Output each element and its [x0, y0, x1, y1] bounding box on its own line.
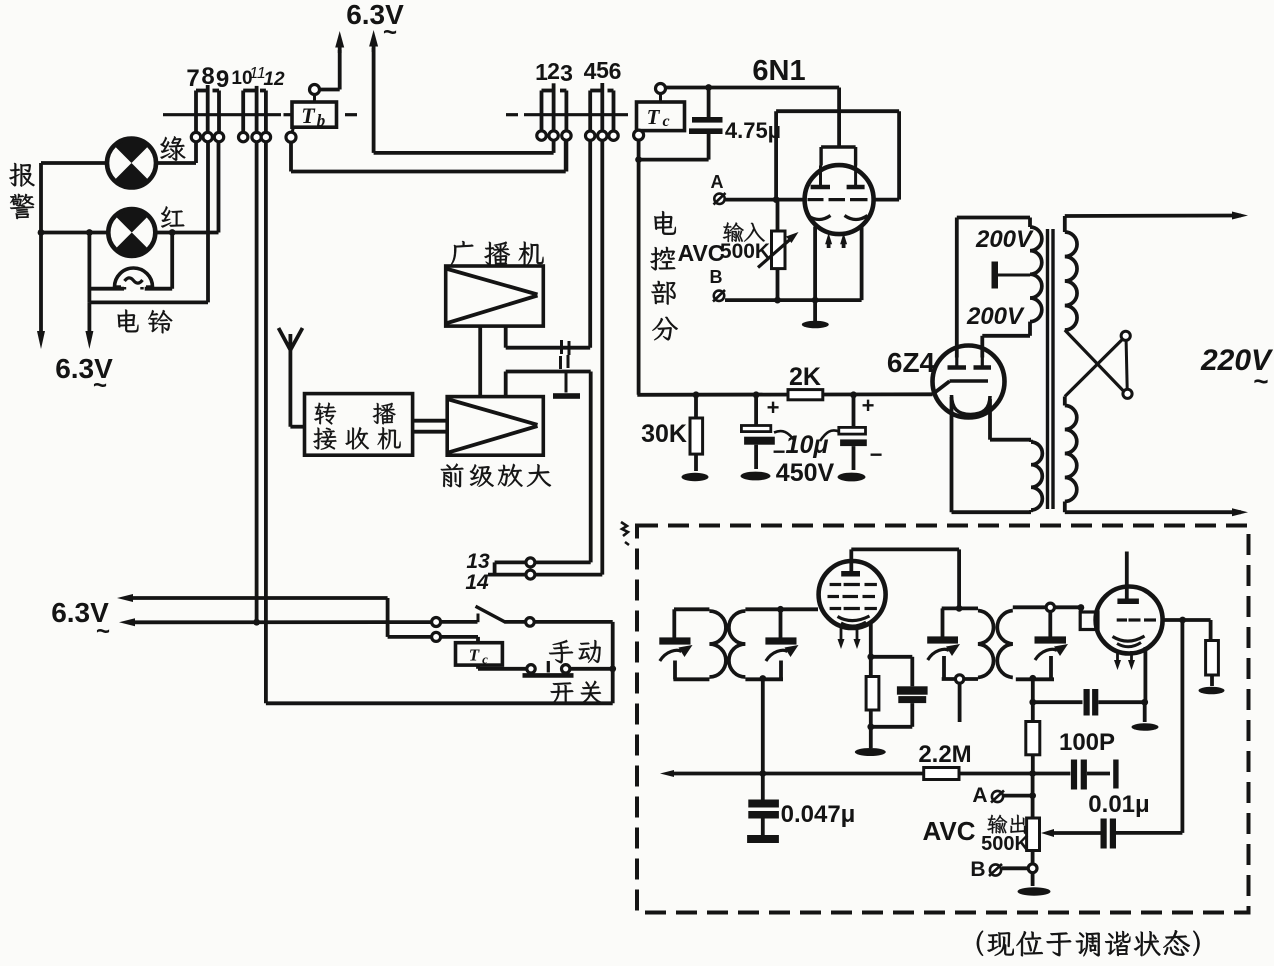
block 转播接收机 (relay receiver) box [305, 394, 413, 456]
svg-text:+: + [767, 395, 780, 420]
tube V2 cathode [1113, 636, 1145, 641]
cathode bypass capacitor V1 [871, 655, 913, 659]
bracket terminals 4-5 [590, 89, 602, 93]
wire terminal 11 down to 6.3V feed [255, 142, 259, 622]
block preamp box [447, 397, 543, 456]
label 输入 500K (input) [723, 222, 744, 242]
terminal 10 lead [241, 91, 245, 133]
tuned circuit 4 frame [1013, 605, 1046, 609]
wire 6Z4 filament right to heater winding [988, 399, 992, 440]
svg-text:450V: 450V [776, 459, 835, 487]
terminal 2 lead [552, 83, 556, 131]
tube V1 plate wire to IF transformer [851, 548, 959, 552]
relay coil Tc box upper (Jc) [637, 102, 685, 131]
terminal 1 circle [537, 131, 546, 140]
ground cathode V2 [1143, 702, 1147, 722]
tube 6N1 cathode leads [813, 227, 817, 301]
wire grid mixer tube [784, 607, 819, 611]
terminal 12 lead with hook [264, 91, 268, 133]
antenna [288, 350, 292, 427]
svg-text:~: ~ [383, 19, 397, 46]
wire terminal 3 down [565, 140, 569, 171]
wire Tb top to 6.3V arrow [320, 88, 340, 92]
svg-text:−: − [870, 442, 883, 467]
variable capacitor C1 [659, 637, 690, 644]
tube V1 cathode lead [869, 624, 873, 657]
wire antenna to receiver [290, 425, 304, 429]
terminal circle below Tc [634, 130, 644, 140]
terminal 5 circle [598, 131, 607, 140]
resistor AVC feed [1031, 702, 1035, 721]
wire Tb bottom to terminal 3 [289, 142, 293, 171]
terminal 1 lead [540, 91, 544, 131]
tube V1 top cap [841, 571, 860, 577]
terminal circle below Tb [286, 132, 296, 142]
wire bell left branch [88, 233, 92, 303]
svg-text:7: 7 [186, 65, 199, 92]
bracket terminals 10-11 [243, 89, 256, 93]
svg-text:0.01μ: 0.01μ [1088, 791, 1149, 818]
coil L4 [997, 611, 1013, 678]
svg-text:A: A [972, 784, 987, 807]
tube V1 cathode [838, 616, 870, 621]
coil L2 [729, 611, 745, 677]
svg-text:4: 4 [584, 58, 597, 84]
wire Tc bottom junction [637, 140, 641, 160]
svg-text:~: ~ [96, 618, 110, 645]
svg-text:B: B [970, 858, 985, 881]
ground cathode V1 [869, 727, 873, 748]
svg-text:T: T [647, 105, 661, 129]
tube V2 plate and top lead [1117, 599, 1139, 605]
caption 现位于调谐状态 [977, 931, 983, 956]
ground 6N1 cathode [813, 300, 817, 321]
tuned circuit 1 frame [674, 607, 709, 611]
terminal 7 lead [194, 91, 198, 133]
svg-text:500K: 500K [720, 240, 770, 263]
terminal circle above Tb [310, 85, 320, 95]
tube 6Z4 anodes [948, 365, 967, 370]
capacitor 100P on AVC rail [1071, 760, 1077, 790]
svg-text:AVC: AVC [923, 816, 976, 846]
node switch output [609, 665, 616, 672]
tube V1 mixer envelope [819, 561, 886, 628]
svg-text:AVC: AVC [678, 240, 725, 266]
svg-text:c: c [482, 652, 488, 667]
tube 6Z4 cathode [950, 379, 989, 382]
wire 6Z4 left plate to HV top [955, 218, 959, 358]
potentiometer 500K input [776, 200, 780, 231]
label 前级放大 (pre-amplifier) [441, 463, 464, 487]
svg-text:12: 12 [263, 69, 285, 90]
terminal 9 lead with hook [217, 91, 221, 133]
svg-text:+: + [862, 393, 875, 418]
capacitor 10u 450V second [852, 395, 856, 428]
tuned circuit 3 frame [956, 605, 963, 612]
wire switch return loop [611, 622, 615, 703]
wire cathode bus B [725, 298, 862, 302]
label 电铃 (bell) [118, 310, 139, 333]
tube 6N1 cathodes [808, 216, 831, 220]
svg-text:2: 2 [547, 58, 560, 84]
terminal circle above Tc [656, 84, 666, 94]
svg-text:B: B [710, 267, 723, 287]
terminal 8 lead [206, 85, 210, 132]
terminal 3 circle [562, 131, 571, 140]
wire AVC rail right of 2.2M [959, 772, 1070, 776]
potentiometer 500K output [1027, 818, 1040, 851]
tuned circuit 2 frame [745, 607, 783, 611]
wire 6.3V upper feed [117, 594, 133, 602]
wire 6Z4 right plate to HV bottom [980, 336, 984, 358]
svg-text:13: 13 [466, 550, 490, 573]
label 绿 (green) [160, 136, 185, 160]
wire green lamp left [41, 161, 107, 165]
terminal 5 lead [600, 83, 604, 131]
tube 6N1 grid dashes [808, 198, 824, 201]
relay coil Tc box [456, 643, 503, 665]
terminal 7 circle [191, 132, 200, 141]
tube 6Z4 filament [952, 395, 991, 415]
svg-text:2K: 2K [789, 363, 821, 391]
svg-text:~: ~ [1253, 366, 1268, 396]
variable capacitor C2 [765, 637, 796, 644]
svg-text:6N1: 6N1 [752, 55, 805, 87]
voltage selector switch [1065, 330, 1123, 391]
svg-text:6Z4: 6Z4 [887, 347, 936, 378]
lead 13 wire and circle [495, 561, 526, 565]
bracket terminals 1-2 [542, 89, 554, 93]
node junction dots red lamp row [38, 229, 45, 236]
terminal 10 circle [239, 132, 248, 141]
label 广播机 (broadcast set) [451, 241, 474, 265]
svg-text:2.2M: 2.2M [918, 741, 971, 768]
transformer HV winding top lead [957, 216, 1030, 220]
block broadcast amplifier box [446, 266, 544, 326]
label 电控部分 (electric control section) [654, 211, 676, 235]
relay Tc coil circuit [432, 632, 441, 641]
svg-text:4.75μ: 4.75μ [725, 118, 781, 143]
svg-text:T: T [469, 646, 480, 665]
tube 6N1 heater arrows [827, 241, 831, 248]
tube 6N1 grid cap [837, 88, 841, 148]
tube 6Z4 envelope [933, 346, 1005, 418]
wire bell right branch [170, 233, 174, 289]
terminal 11 lead [255, 86, 259, 132]
svg-text:14: 14 [465, 571, 489, 594]
label 红 (red) [161, 206, 184, 227]
wire terminal 12 down to switch return [264, 142, 268, 704]
label 手动 (manual) [549, 640, 573, 663]
wire plate loop around tube [774, 111, 778, 199]
svg-text:200V: 200V [975, 226, 1034, 253]
capacitor 10u 450V first [754, 395, 758, 426]
label 报警 (alarm) [9, 163, 34, 187]
tube 6N1 envelope [805, 165, 874, 234]
transformer primary upper [1063, 216, 1067, 232]
load resistor V2 [1209, 620, 1213, 641]
wire AVC rail with arrow [660, 770, 674, 777]
capacitor 4.75u [707, 88, 711, 118]
grid box detector tube [1080, 612, 1098, 630]
lamp green (indicator lamp) [114, 139, 149, 163]
wire V2 output right [1163, 618, 1211, 622]
resistor 2.2M [924, 768, 959, 780]
tube V1 grids [830, 583, 842, 586]
wire left drop 6.3V with arrow [39, 163, 43, 332]
svg-text:~: ~ [93, 372, 107, 399]
wire terminal 4 down to coupling cap [588, 140, 592, 347]
wire AVC drop from tank2 [761, 679, 765, 773]
tube V2 detector envelope [1096, 587, 1163, 654]
svg-text:500K: 500K [981, 833, 1029, 855]
wire 6.3V source down to terminal 2 [372, 42, 376, 52]
wire HT rail drop [637, 160, 641, 395]
cathode resistor V1 [869, 657, 873, 677]
terminal 11 circle [252, 132, 261, 141]
wire receiver to preamp double line [413, 419, 448, 423]
label 开关 (switch) [551, 682, 574, 704]
dashed crossing line terminal strip [163, 113, 281, 116]
wire terminal 5 down to lead 14 [600, 140, 604, 574]
wire HT rail to rectifier [637, 392, 932, 396]
bell 电铃 symbol [115, 268, 153, 287]
wire 6.3V lower feed [119, 618, 135, 626]
svg-text:10μ: 10μ [786, 431, 829, 459]
svg-text:5: 5 [596, 57, 609, 83]
wire grid A to tube [725, 198, 805, 202]
svg-text:0.047μ: 0.047μ [781, 801, 856, 828]
capacitor 0.01u [1101, 819, 1107, 849]
wire red lamp right to terminal 9 [155, 231, 218, 235]
variable capacitor C4 [1035, 636, 1067, 643]
tube V2 cathode lead [1144, 647, 1148, 702]
junction terminal 11 riser [253, 619, 260, 626]
wire V2 output drop to 0.01u [1181, 620, 1185, 833]
ground 30K [682, 473, 709, 481]
coil L3 [978, 611, 994, 678]
transformer HV center tap [998, 274, 1031, 277]
potentiometer bottom to ground [1031, 851, 1035, 864]
terminal 4 circle [586, 131, 595, 140]
wire 6Z4 filament left to bottom rail [950, 397, 954, 512]
relay contact Tc (push contact) [476, 665, 480, 669]
terminal 6 lead with hook [612, 91, 616, 132]
svg-text:30K: 30K [641, 420, 687, 448]
wire mains top with arrow [1065, 214, 1241, 218]
dashed enclosure box [637, 526, 1249, 913]
terminal 8 circle [203, 132, 212, 141]
wire lead 13 riser [589, 372, 593, 563]
lead 14 wire and circle [488, 573, 526, 577]
resistor 30K [694, 395, 698, 418]
svg-text:6: 6 [609, 58, 622, 84]
tube 6N1 anodes [811, 185, 830, 190]
wire broadcast amp output with connector ticks [504, 326, 508, 348]
wire green lamp right to terminal 7 [156, 161, 196, 165]
transformer core [1046, 229, 1049, 509]
capacitor 0.047u to ground [761, 774, 765, 800]
terminal 2 circle [549, 131, 558, 140]
wire preamp input with connector ticks [504, 372, 508, 397]
terminal 3 lead with hook [565, 91, 569, 131]
series capacitor tank4-cathode [1033, 700, 1083, 704]
wire bottom to terminal 8 [89, 300, 208, 304]
svg-text:3: 3 [560, 60, 573, 86]
wire top rail 6N1 [666, 86, 840, 90]
svg-text:b: b [317, 111, 326, 130]
ink smudge marks [621, 522, 629, 545]
terminal 9 circle [214, 132, 223, 141]
transformer heater winding [1031, 442, 1042, 510]
terminal 6 circle [609, 131, 618, 140]
wire broadcast amp to preamp [478, 326, 482, 397]
svg-text:200V: 200V [966, 303, 1025, 330]
tube V1 heater arrows [840, 628, 843, 640]
bracket terminals 7-8 [196, 89, 208, 93]
knife switch 手动开关 [432, 618, 441, 627]
svg-text:A: A [711, 172, 724, 192]
wire tank4 to detector tube grid [1055, 605, 1081, 609]
transformer HV winding [1030, 227, 1042, 322]
wire second drop with arrow [88, 302, 92, 332]
wiper arrow 500K output [1052, 831, 1101, 835]
tube V2 grid dashes [1117, 618, 1127, 621]
coil L1 [709, 611, 726, 677]
wire mains bottom with arrow [1063, 502, 1067, 513]
terminal circle tank3 bottom [955, 675, 963, 683]
ground load resistor [1199, 687, 1225, 695]
terminal 12 circle [261, 132, 270, 141]
label 输出 500K [987, 815, 1007, 834]
stub capacitor to preamp top [565, 372, 568, 393]
resistor 2K [788, 390, 823, 400]
svg-text:c: c [662, 113, 669, 130]
relay coil Tb box [292, 102, 337, 127]
lamp red (indicator lamp) [115, 209, 148, 232]
transformer primary lower [1065, 406, 1077, 502]
tube V2 heater arrows [1116, 651, 1119, 662]
svg-text:100P: 100P [1059, 729, 1115, 756]
svg-text:T: T [301, 103, 316, 128]
terminal 4 lead [588, 91, 592, 132]
variable capacitor C3 [927, 636, 958, 643]
wire red lamp left [41, 231, 108, 235]
wire tank4 bottom network [1031, 679, 1035, 702]
link 13-14 [493, 562, 497, 574]
